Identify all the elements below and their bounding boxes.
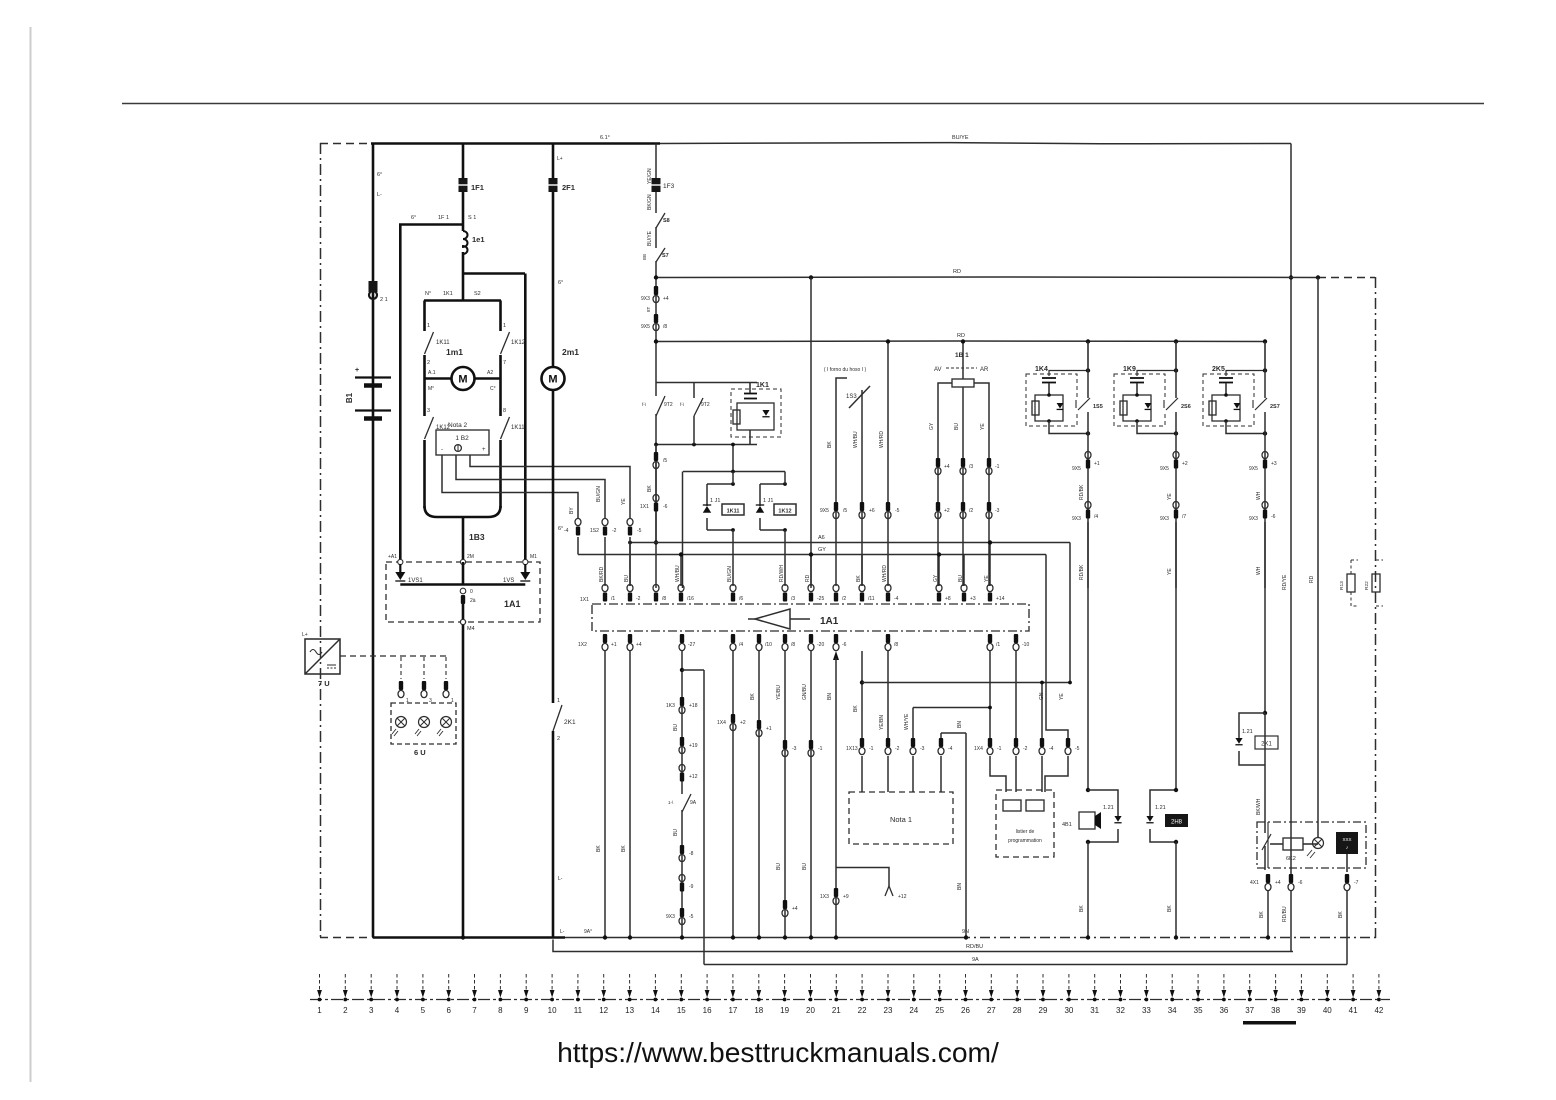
pin 1X1 x733 bbox=[730, 584, 736, 601]
svg-text:1X3: 1X3 bbox=[820, 894, 829, 900]
wire x1176 long drop bbox=[1175, 522, 1177, 790]
svg-text:1.21: 1.21 bbox=[1155, 805, 1166, 811]
svg-text:2: 2 bbox=[343, 1006, 348, 1015]
svg-text:/8: /8 bbox=[663, 324, 667, 330]
wire x1088 long drop bbox=[1087, 522, 1089, 790]
terminal 36 bbox=[1219, 974, 1228, 1015]
svg-text:1K1: 1K1 bbox=[756, 382, 769, 389]
terminal 29 bbox=[1039, 974, 1048, 1015]
contact 1K12 lower-left bbox=[425, 417, 434, 439]
svg-text:BK: BK bbox=[750, 693, 756, 700]
svg-text:-7: -7 bbox=[1354, 880, 1359, 886]
pin 1X2 x605 bbox=[602, 634, 608, 651]
relay 1K1 dashed box bbox=[731, 389, 781, 437]
svg-text:1: 1 bbox=[557, 698, 560, 704]
svg-text:1VS: 1VS bbox=[503, 578, 514, 584]
node diode block top bbox=[731, 470, 735, 474]
connector 1X5 x656 bbox=[653, 452, 659, 469]
node relay 2K5 return bbox=[1263, 431, 1267, 435]
svg-text:5: 5 bbox=[421, 1006, 426, 1015]
symbol B circle in 1B2 bbox=[455, 445, 462, 452]
svg-text:6K2: 6K2 bbox=[1286, 856, 1296, 862]
svg-text:+18: +18 bbox=[689, 703, 698, 709]
svg-text:9T2: 9T2 bbox=[664, 402, 673, 408]
svg-text:1X2: 1X2 bbox=[578, 642, 587, 648]
wire x811 pin stub2 bbox=[810, 555, 812, 587]
diode 1J1-b bbox=[756, 505, 764, 513]
svg-text:BK: BK bbox=[1167, 905, 1173, 912]
relay 1K4 cap bbox=[1042, 377, 1056, 379]
wire x939 stub bbox=[938, 555, 940, 587]
svg-text:XXX: XXX bbox=[1342, 837, 1351, 842]
pin 1X2 x733 bbox=[730, 634, 736, 651]
wire x1265 long drop bbox=[1264, 522, 1266, 713]
wire prog pin3 to box bbox=[1041, 756, 1043, 792]
connector 9X3 upper x656 bbox=[653, 286, 659, 303]
stub x630 to pin bbox=[629, 543, 631, 587]
wire x605 lower bbox=[604, 651, 606, 938]
svg-text:YE: YE bbox=[621, 498, 627, 505]
pin 1X1 x811 bbox=[808, 584, 814, 601]
contact 1K12 upper-right bbox=[501, 332, 510, 354]
terminal 1 bbox=[317, 974, 322, 1015]
svg-text:1F1: 1F1 bbox=[471, 183, 484, 192]
svg-text:9X3: 9X3 bbox=[1249, 516, 1258, 522]
fork terminal x889 bbox=[885, 886, 893, 896]
svg-text:/10: /10 bbox=[765, 642, 772, 648]
svg-text:-4: -4 bbox=[894, 596, 899, 602]
contactor top bar bbox=[424, 299, 501, 302]
stem 1B3 (center) bbox=[462, 517, 465, 563]
svg-text:S2: S2 bbox=[474, 291, 481, 297]
pin 0 below bar bbox=[460, 588, 466, 594]
terminal 6 bbox=[446, 974, 451, 1015]
node relay 1K9 return bbox=[1174, 431, 1178, 435]
svg-text:22: 22 bbox=[858, 1006, 867, 1015]
wire switch drop x694 bbox=[693, 383, 695, 399]
svg-text:S7: S7 bbox=[662, 253, 669, 259]
wire nota1 pin3 feed bbox=[913, 707, 990, 709]
pin 1X1 x862 bbox=[859, 584, 865, 601]
relay 2K5 stub bbox=[1225, 383, 1227, 395]
bus RD upper bbox=[655, 276, 1318, 279]
connector 9X5 x656 bbox=[653, 314, 659, 331]
pin 1X2 x759 bbox=[756, 634, 762, 651]
svg-text:/11: /11 bbox=[868, 596, 875, 602]
svg-text:R22: R22 bbox=[1364, 581, 1370, 590]
wire 1B1 right end bbox=[974, 383, 989, 586]
connector 1B1 row2 x963 bbox=[960, 502, 966, 519]
contactor left column lower bbox=[423, 379, 426, 417]
svg-text:RD: RD bbox=[953, 269, 961, 275]
pin M1 bbox=[523, 559, 528, 564]
svg-text:1m1: 1m1 bbox=[446, 347, 463, 357]
wire x681 pin stub bbox=[680, 555, 682, 587]
node relay 2K5 coil top bbox=[1224, 393, 1228, 397]
svg-text:9X3: 9X3 bbox=[1160, 516, 1169, 522]
svg-text:-2: -2 bbox=[895, 746, 900, 752]
wire x966 drop to 9N bbox=[965, 733, 967, 938]
connector x785 low bbox=[782, 900, 788, 917]
svg-text:35: 35 bbox=[1194, 1006, 1203, 1015]
svg-text:AV: AV bbox=[934, 367, 942, 373]
blob below pin 0 bbox=[461, 595, 465, 604]
contactor left column bottom bbox=[423, 440, 426, 508]
dashes AV-AR bbox=[946, 367, 977, 369]
svg-text:-4: -4 bbox=[948, 746, 953, 752]
fuse 1F1 bbox=[459, 178, 468, 192]
pin 1X2 x836 bbox=[833, 634, 839, 651]
node 1B1/RD2 bbox=[961, 339, 965, 343]
wire x862 stub bbox=[861, 555, 863, 587]
svg-text:+4: +4 bbox=[636, 642, 642, 648]
svg-text:1.21: 1.21 bbox=[1242, 729, 1253, 735]
wire horizontal to 1e1 frame bbox=[399, 223, 463, 226]
svg-text:L+: L+ bbox=[302, 632, 308, 638]
wire x630 lower bbox=[629, 651, 631, 938]
terminal 31 bbox=[1090, 974, 1099, 1015]
svg-text:4B1: 4B1 bbox=[1062, 822, 1072, 828]
wire drop x=1318 bbox=[1317, 278, 1319, 837]
relay 1K9 diode bbox=[1145, 403, 1152, 409]
wire x656 below relay block bbox=[655, 445, 657, 543]
svg-text:WH: WH bbox=[1256, 491, 1262, 500]
boxed label 1K11 bbox=[722, 504, 744, 515]
svg-text:BK/RD: BK/RD bbox=[599, 566, 605, 582]
loop 1K11 frame bbox=[707, 484, 733, 530]
svg-text:1B3: 1B3 bbox=[469, 532, 485, 542]
svg-text:-5: -5 bbox=[689, 914, 694, 920]
svg-text:1X1: 1X1 bbox=[580, 597, 589, 603]
svg-text:4: 4 bbox=[395, 1006, 400, 1015]
svg-text:BK: BK bbox=[647, 485, 653, 492]
border top-left stub (dashed) bbox=[320, 143, 371, 145]
svg-text:2M: 2M bbox=[467, 554, 474, 560]
bus A6 corner drop bbox=[1069, 543, 1071, 683]
relay 1K9 stub bbox=[1136, 383, 1138, 395]
node y682 right end bbox=[1068, 681, 1072, 685]
terminal 16 bbox=[703, 974, 712, 1015]
box 1B2 (Nota 2) bbox=[436, 430, 489, 455]
connector 1B1 row1 x938 bbox=[935, 458, 941, 475]
pin 1X1 x785 bbox=[782, 584, 788, 601]
svg-text:RD/YE: RD/YE bbox=[1282, 574, 1288, 590]
contactor left column upper bbox=[423, 301, 426, 332]
svg-text:1A1: 1A1 bbox=[504, 599, 521, 609]
connector prog pin2 bbox=[1013, 738, 1019, 755]
connector x682 row6 bbox=[679, 908, 685, 925]
stub x577 to GY bus bbox=[577, 537, 579, 555]
svg-text:RD/BU: RD/BU bbox=[1282, 906, 1288, 922]
svg-text:+4: +4 bbox=[792, 906, 798, 912]
node 1S3/RD2 bbox=[886, 339, 890, 343]
contact 1K11 lower-right bbox=[501, 417, 510, 439]
bus +BAT top (thick left part) bbox=[371, 142, 660, 145]
connector x682 row4 bbox=[679, 845, 685, 862]
box relay 1K9 (dashed) bbox=[1114, 374, 1165, 426]
svg-text:+2: +2 bbox=[944, 508, 950, 514]
wire 1B1 feed bbox=[962, 342, 964, 380]
connector relay 2K5 row1 bbox=[1262, 451, 1268, 468]
svg-text:9X3: 9X3 bbox=[1072, 516, 1081, 522]
svg-text:4X1: 4X1 bbox=[1250, 880, 1259, 886]
frame 2K1 bbox=[1239, 713, 1265, 765]
svg-text:YE: YE bbox=[984, 575, 990, 582]
svg-text:+4: +4 bbox=[944, 464, 950, 470]
charger output dashed wire bbox=[340, 655, 448, 657]
wire x990 stub bbox=[989, 543, 991, 587]
svg-text:0: 0 bbox=[470, 589, 473, 595]
svg-text:9X5: 9X5 bbox=[1249, 466, 1258, 472]
box Nota 1 (dashed) bbox=[849, 792, 953, 844]
contactor bottom U bbox=[425, 506, 501, 517]
wire x811 lower bbox=[810, 651, 812, 938]
node relay 2K5 feed bbox=[1263, 368, 1267, 372]
relay 2K5 resistor bbox=[1209, 401, 1216, 415]
wire relay column x1176 bbox=[1175, 342, 1177, 589]
switch blade x694 bbox=[694, 398, 703, 416]
svg-text:31: 31 bbox=[1090, 1006, 1099, 1015]
motor 2M1 bbox=[542, 367, 565, 390]
svg-text:L-: L- bbox=[560, 929, 565, 935]
pin 1X1 x964 bbox=[961, 584, 967, 601]
wire prog pin2 to box bbox=[1015, 756, 1017, 792]
fuse 2F1 bbox=[549, 178, 558, 192]
svg-text:RD/BK: RD/BK bbox=[1079, 484, 1085, 500]
wire x630 through buses bbox=[629, 537, 631, 586]
svg-text:2: 2 bbox=[557, 736, 560, 742]
wire relay column x1088 bbox=[1087, 342, 1089, 589]
svg-text:32: 32 bbox=[1116, 1006, 1125, 1015]
svg-text:-3: -3 bbox=[792, 746, 797, 752]
wire nota1 pin1 to box bbox=[861, 756, 863, 792]
svg-text:N°: N° bbox=[425, 291, 431, 297]
svg-text:1S5: 1S5 bbox=[1093, 404, 1103, 410]
lamp 6U 3 bbox=[437, 717, 452, 737]
connector 1S3 right upper bbox=[885, 502, 891, 519]
diode 2K1 bbox=[1235, 738, 1242, 745]
svg-text:26: 26 bbox=[961, 1006, 970, 1015]
connector 1B1 row2 x938 bbox=[935, 502, 941, 519]
wire x=656 from top bus bbox=[655, 144, 657, 589]
svg-text:BN: BN bbox=[957, 721, 963, 728]
wire x1291 connector bbox=[1288, 874, 1294, 891]
node rail x694 bbox=[692, 443, 696, 447]
svg-text:1F3: 1F3 bbox=[663, 183, 675, 190]
svg-text:YE: YE bbox=[1059, 693, 1065, 700]
wire coil 6K2 leads bbox=[1270, 843, 1283, 845]
svg-text:1K1: 1K1 bbox=[443, 291, 453, 297]
svg-text:28: 28 bbox=[1013, 1006, 1022, 1015]
svg-text:-3: -3 bbox=[920, 746, 925, 752]
svg-text:BU/GN: BU/GN bbox=[727, 566, 733, 582]
switch 1S3 blade bbox=[849, 386, 870, 408]
svg-text:8: 8 bbox=[503, 408, 506, 414]
svg-text:1S2: 1S2 bbox=[590, 528, 599, 534]
wire x682 lower bbox=[681, 651, 683, 938]
svg-text:2S6: 2S6 bbox=[1181, 404, 1191, 410]
svg-text:1K11: 1K11 bbox=[436, 340, 450, 346]
svg-text:8: 8 bbox=[498, 1006, 503, 1015]
svg-text:/4: /4 bbox=[739, 642, 743, 648]
svg-text:9T2: 9T2 bbox=[701, 402, 710, 408]
svg-text:9A: 9A bbox=[690, 800, 697, 806]
terminal 4 bbox=[395, 974, 400, 1015]
wire battery branch vertical bbox=[372, 144, 375, 938]
svg-text:/8: /8 bbox=[662, 596, 666, 602]
terminal 15 bbox=[677, 974, 686, 1015]
terminal 30 bbox=[1064, 974, 1073, 1015]
svg-text:S 1: S 1 bbox=[468, 215, 476, 221]
svg-text:WH: WH bbox=[1256, 566, 1262, 575]
box 1A1 controller (dash-dot) bbox=[592, 604, 1029, 631]
wire 6K switch bbox=[1267, 822, 1269, 868]
node 1K12 top bbox=[783, 482, 787, 486]
svg-text:7 U: 7 U bbox=[318, 679, 330, 688]
terminal 35 bbox=[1194, 974, 1203, 1015]
mark below terminal 37-39 bbox=[1243, 1021, 1296, 1025]
contactor left column mid bbox=[423, 355, 426, 379]
terminal 8 bbox=[498, 974, 503, 1015]
lamp 6U 1 bbox=[392, 717, 407, 737]
svg-text:9X5: 9X5 bbox=[641, 324, 650, 330]
node relay 1K9 coil bottom bbox=[1135, 419, 1139, 423]
terminal 5 bbox=[421, 974, 426, 1015]
switch x682 bbox=[676, 794, 689, 810]
svg-text:Nota 2: Nota 2 bbox=[448, 422, 468, 429]
node bus RD / drop 1291 bbox=[1289, 275, 1293, 279]
charger AC symbol bbox=[310, 650, 322, 655]
connector 1B1 row1 x963 bbox=[960, 458, 966, 475]
connector x630 upper bbox=[627, 518, 633, 535]
contactor right column lower bbox=[499, 379, 502, 417]
wire x990 prog feed bbox=[989, 651, 991, 738]
connector x1347 below box bbox=[1344, 874, 1350, 891]
svg-text:8T: 8T bbox=[646, 306, 651, 312]
connector 1X1 x656 bbox=[653, 494, 659, 511]
connector x682 row2 bbox=[679, 737, 685, 754]
connector nota1 pin1 bbox=[859, 738, 865, 755]
relay 1K4 bottom wire bbox=[1049, 421, 1088, 434]
wire drop right x=1291 bbox=[1290, 144, 1292, 877]
wire x1293 bus corner bbox=[1292, 951, 1294, 953]
terminal 42 bbox=[1374, 974, 1383, 1015]
svg-text:-6: -6 bbox=[842, 642, 847, 648]
svg-text:WH/RD: WH/RD bbox=[882, 565, 888, 582]
diode 1VS2 bbox=[524, 564, 526, 572]
svg-text:-4: -4 bbox=[1049, 746, 1054, 752]
box bottom-right (dash-dot) bbox=[1257, 822, 1366, 868]
op-amp tick bbox=[748, 618, 755, 620]
svg-text:9X5: 9X5 bbox=[1072, 466, 1081, 472]
bus RD/BU bottom bbox=[553, 940, 1293, 952]
wire x1291 to RD/BU bus bbox=[1290, 890, 1292, 952]
svg-text:BN: BN bbox=[827, 693, 833, 700]
connector nota1 pin2 bbox=[885, 738, 891, 755]
svg-text:39: 39 bbox=[1297, 1006, 1306, 1015]
wire prog pin1 to box bbox=[990, 756, 1006, 792]
svg-text:3: 3 bbox=[369, 1006, 374, 1015]
svg-text:R13: R13 bbox=[1339, 581, 1345, 590]
svg-text:+A1: +A1 bbox=[388, 554, 397, 560]
svg-text:+1: +1 bbox=[611, 642, 617, 648]
svg-text:2: 2 bbox=[427, 360, 430, 366]
svg-text:BY: BY bbox=[569, 507, 575, 514]
svg-text:+9: +9 bbox=[843, 894, 849, 900]
pin 1X2 x785 bbox=[782, 634, 788, 651]
relay 1K9 bottom wire bbox=[1137, 421, 1176, 434]
wire x1016 prog feed bbox=[1015, 651, 1017, 738]
box programming (dashed) bbox=[996, 790, 1054, 857]
svg-text:2S7: 2S7 bbox=[1270, 404, 1280, 410]
border bottom-left stub (dashed) bbox=[320, 937, 373, 939]
svg-text:-2: -2 bbox=[636, 596, 641, 602]
wire x1268 to 9N bbox=[1267, 890, 1269, 938]
svg-text:1K3: 1K3 bbox=[666, 703, 675, 709]
diode block top rail bbox=[683, 471, 785, 473]
svg-text:-8: -8 bbox=[689, 851, 694, 857]
op-amp input line bbox=[790, 618, 810, 620]
svg-text:/3: /3 bbox=[969, 464, 973, 470]
connector relay 1K9 row2 bbox=[1173, 501, 1179, 518]
svg-text:+4: +4 bbox=[1275, 880, 1281, 886]
pin 1X2 x811 bbox=[808, 634, 814, 651]
terminal 28 bbox=[1013, 974, 1022, 1015]
svg-text:+: + bbox=[482, 447, 486, 453]
terminal 24 bbox=[909, 974, 918, 1015]
terminal 21 bbox=[832, 974, 841, 1015]
pin 1X2 x1016 bbox=[1013, 634, 1019, 651]
node relay 1K4 on RD bus bbox=[1086, 339, 1090, 343]
wire 1e1 frame vertical (thick) bbox=[399, 225, 402, 564]
terminal 40 bbox=[1323, 974, 1332, 1015]
charger 7U box bbox=[305, 639, 340, 674]
relay 1K9 inner rect bbox=[1123, 395, 1151, 421]
svg-text:6.1°: 6.1° bbox=[600, 135, 610, 141]
svg-text:YE/BN: YE/BN bbox=[879, 715, 885, 730]
svg-text:-25: -25 bbox=[817, 596, 824, 602]
bus BU/YE top (thin right part) bbox=[660, 143, 1291, 144]
node 2H8 top bbox=[1174, 788, 1178, 792]
wire 2M1 motor down bbox=[552, 390, 555, 703]
svg-text:YE: YE bbox=[1167, 568, 1173, 575]
svg-text:-5: -5 bbox=[895, 508, 900, 514]
svg-text:M4: M4 bbox=[467, 626, 475, 632]
node RD end 1318 bbox=[1316, 275, 1320, 279]
pin 1X2 x990 bbox=[987, 634, 993, 651]
wire 1S3 right leg from RD bus bbox=[887, 342, 889, 587]
terminal 22 bbox=[858, 974, 867, 1015]
node relay 2K5 coil bottom bbox=[1224, 419, 1228, 423]
bus nota1 y682 bbox=[862, 682, 1070, 684]
svg-text:-6: -6 bbox=[663, 504, 668, 510]
wire 1B1 left end bbox=[938, 383, 952, 586]
svg-text:B1: B1 bbox=[345, 392, 354, 403]
svg-text:/6: /6 bbox=[739, 596, 743, 602]
svg-text:/2: /2 bbox=[969, 508, 973, 514]
terminal 19 bbox=[780, 974, 789, 1015]
svg-text:GY: GY bbox=[929, 422, 935, 430]
motor 1M1 bbox=[452, 367, 475, 390]
terminal 10 bbox=[548, 974, 557, 1015]
svg-text:9A°: 9A° bbox=[584, 929, 592, 935]
svg-text:YE/BU: YE/BU bbox=[776, 685, 782, 700]
svg-text:L-: L- bbox=[377, 192, 382, 198]
connector 6U pin 3 bbox=[443, 681, 449, 698]
svg-text:listier de: listier de bbox=[1016, 829, 1035, 835]
diode 1VS1 bbox=[399, 564, 401, 572]
page left edge shading bbox=[30, 27, 32, 1082]
